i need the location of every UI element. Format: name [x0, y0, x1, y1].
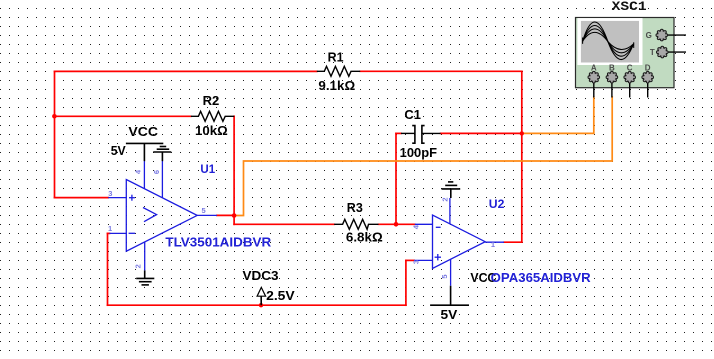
svg-text:9.1kΩ: 9.1kΩ: [318, 79, 355, 93]
svg-text:VDC3: VDC3: [243, 269, 279, 283]
svg-text:A: A: [591, 63, 597, 72]
svg-text:2: 2: [133, 264, 142, 268]
svg-text:2.5V: 2.5V: [266, 289, 295, 303]
svg-text:G: G: [646, 31, 652, 40]
svg-text:C: C: [627, 63, 633, 72]
svg-text:100pF: 100pF: [400, 146, 438, 160]
svg-text:5V: 5V: [441, 308, 459, 322]
svg-text:TLV3501AIDBVR: TLV3501AIDBVR: [165, 234, 271, 249]
svg-text:2: 2: [440, 197, 449, 201]
svg-text:3: 3: [412, 260, 421, 264]
svg-text:C1: C1: [404, 108, 421, 122]
svg-text:R1: R1: [328, 50, 344, 64]
svg-text:U1: U1: [200, 162, 215, 176]
svg-text:U2: U2: [489, 197, 505, 211]
svg-text:3: 3: [108, 189, 112, 198]
svg-text:5: 5: [202, 206, 206, 215]
svg-text:B: B: [609, 63, 615, 72]
svg-text:T: T: [650, 48, 655, 57]
svg-text:OPA365AIDBVR: OPA365AIDBVR: [491, 270, 592, 285]
svg-text:XSC1: XSC1: [612, 0, 647, 14]
svg-text:1: 1: [108, 224, 112, 233]
svg-text:D: D: [645, 63, 651, 72]
svg-text:R2: R2: [203, 94, 220, 108]
svg-text:R3: R3: [347, 201, 363, 215]
svg-text:VCC: VCC: [128, 125, 158, 139]
svg-text:6.8kΩ: 6.8kΩ: [346, 230, 383, 244]
svg-text:6: 6: [152, 170, 161, 174]
svg-text:5: 5: [440, 274, 449, 278]
svg-text:1: 1: [491, 240, 495, 249]
svg-text:10kΩ: 10kΩ: [195, 124, 228, 138]
svg-text:5V: 5V: [111, 144, 127, 158]
